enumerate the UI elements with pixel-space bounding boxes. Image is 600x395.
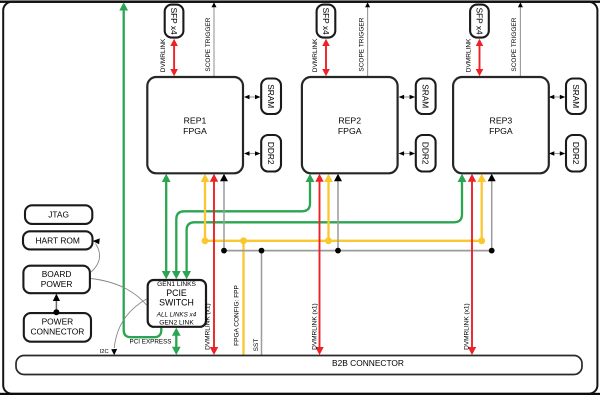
box PCIE SWITCH [148,280,206,327]
svg-text:FPGA: FPGA [338,126,362,136]
box DDR2 (REP1) [261,135,281,172]
arrowhead red down into B2B (REP3) [468,347,476,355]
arrowhead red down into REP2 top [322,69,330,76]
svg-text:DDR2: DDR2 [421,142,431,165]
svg-text:POWER: POWER [41,279,73,289]
svg-text:DVMRLINK (x1): DVMRLINK (x1) [205,303,212,350]
arrowhead green down into switch (from REP2) [172,271,181,279]
wire FPGA2-SRAM [403,96,412,98]
junction dot black REP2 [335,248,341,254]
box JTAG [25,205,92,224]
wire yellow REP2 drop [327,181,329,241]
box SFP x4 (REP3) [470,5,489,38]
box REP1 FPGA [147,77,243,173]
arrowhead scope trigger REP1 top [212,2,217,7]
box SRAM (REP2) [416,79,436,115]
wire red SFP1 link [173,45,175,70]
wire green REP1 to switch [165,181,167,273]
svg-text:CONNECTOR: CONNECTOR [30,327,84,337]
svg-text:REP3: REP3 [490,116,513,126]
junction dot black SST [259,248,265,254]
wire power connector to board power [55,299,57,312]
arrowhead red up into REP2 bottom [315,174,323,182]
wire curve board power to hart rom [91,244,100,273]
svg-text:JTAG: JTAG [48,210,69,220]
bottom edge bar [0,393,600,395]
box SFP x4 (REP1) [165,5,184,38]
box SRAM (REP1) [261,79,281,115]
wire yellow REP1 drop [204,181,206,241]
box POWER CONNECTOR [24,313,91,342]
arrowhead green up into top border [119,2,128,10]
svg-text:SWITCH: SWITCH [159,298,194,308]
svg-text:SFP x4: SFP x4 [169,8,179,35]
wire grey REP3 drop [491,180,493,251]
svg-text:FPGA CONFIG: FPP: FPGA CONFIG: FPP [233,285,240,346]
svg-text:REP1: REP1 [184,116,207,126]
wire yellow bus horizontal [205,240,482,242]
wire green REP3 to switch [187,181,462,273]
wire green REP2 to switch [176,181,310,273]
svg-text:DDR2: DDR2 [571,142,581,165]
svg-text:DVMRLINK: DVMRLINK [465,38,472,72]
wire FPGA1-SRAM [248,96,257,98]
arrowhead red up into REP3 bottom [468,174,476,182]
junction dot yellow FPGA CONFIG [240,237,247,244]
arrowhead green up into REP3 [458,174,467,182]
svg-text:GEN2 LINK: GEN2 LINK [159,320,194,327]
arrowhead red down into B2B (REP2) [315,347,323,355]
top edge bar [0,0,600,1]
svg-text:FPGA: FPGA [183,126,207,136]
svg-text:BOARD: BOARD [42,269,72,279]
wire grey REP1 drop [223,180,225,251]
arrowhead red down into B2B (REP1) [210,347,218,355]
box REP2 FPGA [302,77,398,173]
junction dot yellow REP3 [478,237,485,244]
svg-text:DVMRLINK (x1): DVMRLINK (x1) [311,303,318,350]
arrowhead yellow up into REP1 [201,174,210,182]
wire grey bus horizontal [224,250,492,252]
arrowhead yellow up into REP2 [324,174,333,182]
box SRAM (REP3) [566,79,586,115]
svg-text:SCOPE TRIGGER: SCOPE TRIGGER [511,17,518,71]
wire red REP2 to B2B [319,181,321,349]
arrowhead red up into SFP3 [476,39,484,46]
svg-text:ALL LINKS x4: ALL LINKS x4 [156,311,197,318]
arrowhead scope trigger REP2 top [365,2,370,7]
arrowhead red down into REP3 top [476,69,484,76]
svg-text:DDR2: DDR2 [266,142,276,165]
wire green PCI EXPRESS switch to B2B [175,335,177,349]
arrowhead green down into B2B (PCI EXPRESS) [172,347,181,355]
arrowhead green down into switch (from REP1) [162,271,171,279]
wire scope trigger REP3 [519,7,521,77]
svg-text:HART ROM: HART ROM [36,236,80,246]
wire FPGA3-SRAM [553,96,562,98]
wire yellow FPGA CONFIG drop to B2B [242,241,244,355]
arrowhead I2C down into B2B [111,349,117,355]
box HART ROM [23,231,93,249]
svg-text:DVMRLINK: DVMRLINK [312,38,319,72]
arrowhead power up into BOARD POWER [53,294,60,301]
wire FPGA2-DDR2 [403,153,412,155]
arrowhead red down into REP1 top [170,69,178,76]
svg-text:REP2: REP2 [338,116,361,126]
svg-text:DVMRLINK: DVMRLINK [160,38,167,72]
junction dot yellow REP2 [325,237,332,244]
wire scope trigger REP1 [213,7,215,77]
arrowhead black up into REP2 (SST) [334,174,342,181]
svg-text:SRAM: SRAM [571,84,581,108]
box REP3 FPGA [453,77,549,173]
box BOARD POWER [23,266,90,294]
svg-text:POWER: POWER [42,317,74,327]
wire grey SST drop to B2B [261,251,263,355]
arrowhead red up into REP1 bottom [210,174,218,182]
svg-text:SFP x4: SFP x4 [475,8,485,35]
arrowhead yellow up into REP3 [477,174,486,182]
arrowhead green up into REP2 [306,174,315,182]
wire red REP3 to B2B [471,181,473,349]
svg-text:SRAM: SRAM [421,84,431,108]
arrowhead green down into switch (from REP3) [182,271,191,279]
junction dot power connector [53,309,59,315]
wire red REP1 to B2B [213,181,215,349]
arrowhead scope trigger REP3 top [518,2,523,7]
wire yellow REP3 drop [481,181,483,241]
arrowhead red up into SFP2 [322,39,330,46]
wire red SFP3 link [479,45,481,70]
wire scope trigger REP2 [367,7,369,77]
wire curve board power to pcie switch [91,279,147,306]
box SFP x4 (REP2) [317,5,336,38]
svg-text:I2C: I2C [100,349,109,355]
svg-text:PCI EXPRESS: PCI EXPRESS [130,339,172,346]
svg-text:FPGA: FPGA [489,126,513,136]
svg-text:GEN1 LINKS: GEN1 LINKS [157,281,196,288]
svg-text:SRAM: SRAM [266,84,276,108]
wire grey REP2 drop [337,180,339,251]
svg-text:SFP x4: SFP x4 [321,8,331,35]
junction dot black REP1 [221,248,227,254]
svg-text:B2B CONNECTOR: B2B CONNECTOR [332,358,404,368]
junction dot black REP3 [489,248,495,254]
arrowhead black up into REP1 (SST) [220,174,228,181]
box DDR2 (REP2) [416,135,436,172]
arrowhead black up into REP3 (SST) [488,174,496,181]
arrowhead green up into REP1 [162,174,171,182]
arrowhead red up into SFP1 [170,39,178,46]
wire red SFP2 link [325,45,327,70]
wire green top vertical to PCIE switch [124,10,162,338]
arrowhead into HART ROM right edge [93,238,100,244]
svg-text:SCOPE TRIGGER: SCOPE TRIGGER [358,17,365,71]
box B2B CONNECTOR [16,356,582,375]
box DDR2 (REP3) [566,135,586,172]
svg-text:DVMRLINK (x1): DVMRLINK (x1) [464,303,471,350]
wire FPGA1-DDR2 [248,153,257,155]
wire FPGA3-DDR2 [553,153,562,155]
wire curve pcie switch to I2C / B2B [114,299,146,348]
junction dot yellow REP1 [202,237,209,244]
svg-text:SCOPE TRIGGER: SCOPE TRIGGER [205,17,212,71]
arrowhead green up into switch bottom (PCI EXPRESS) [172,328,181,336]
svg-text:SST: SST [253,339,260,352]
